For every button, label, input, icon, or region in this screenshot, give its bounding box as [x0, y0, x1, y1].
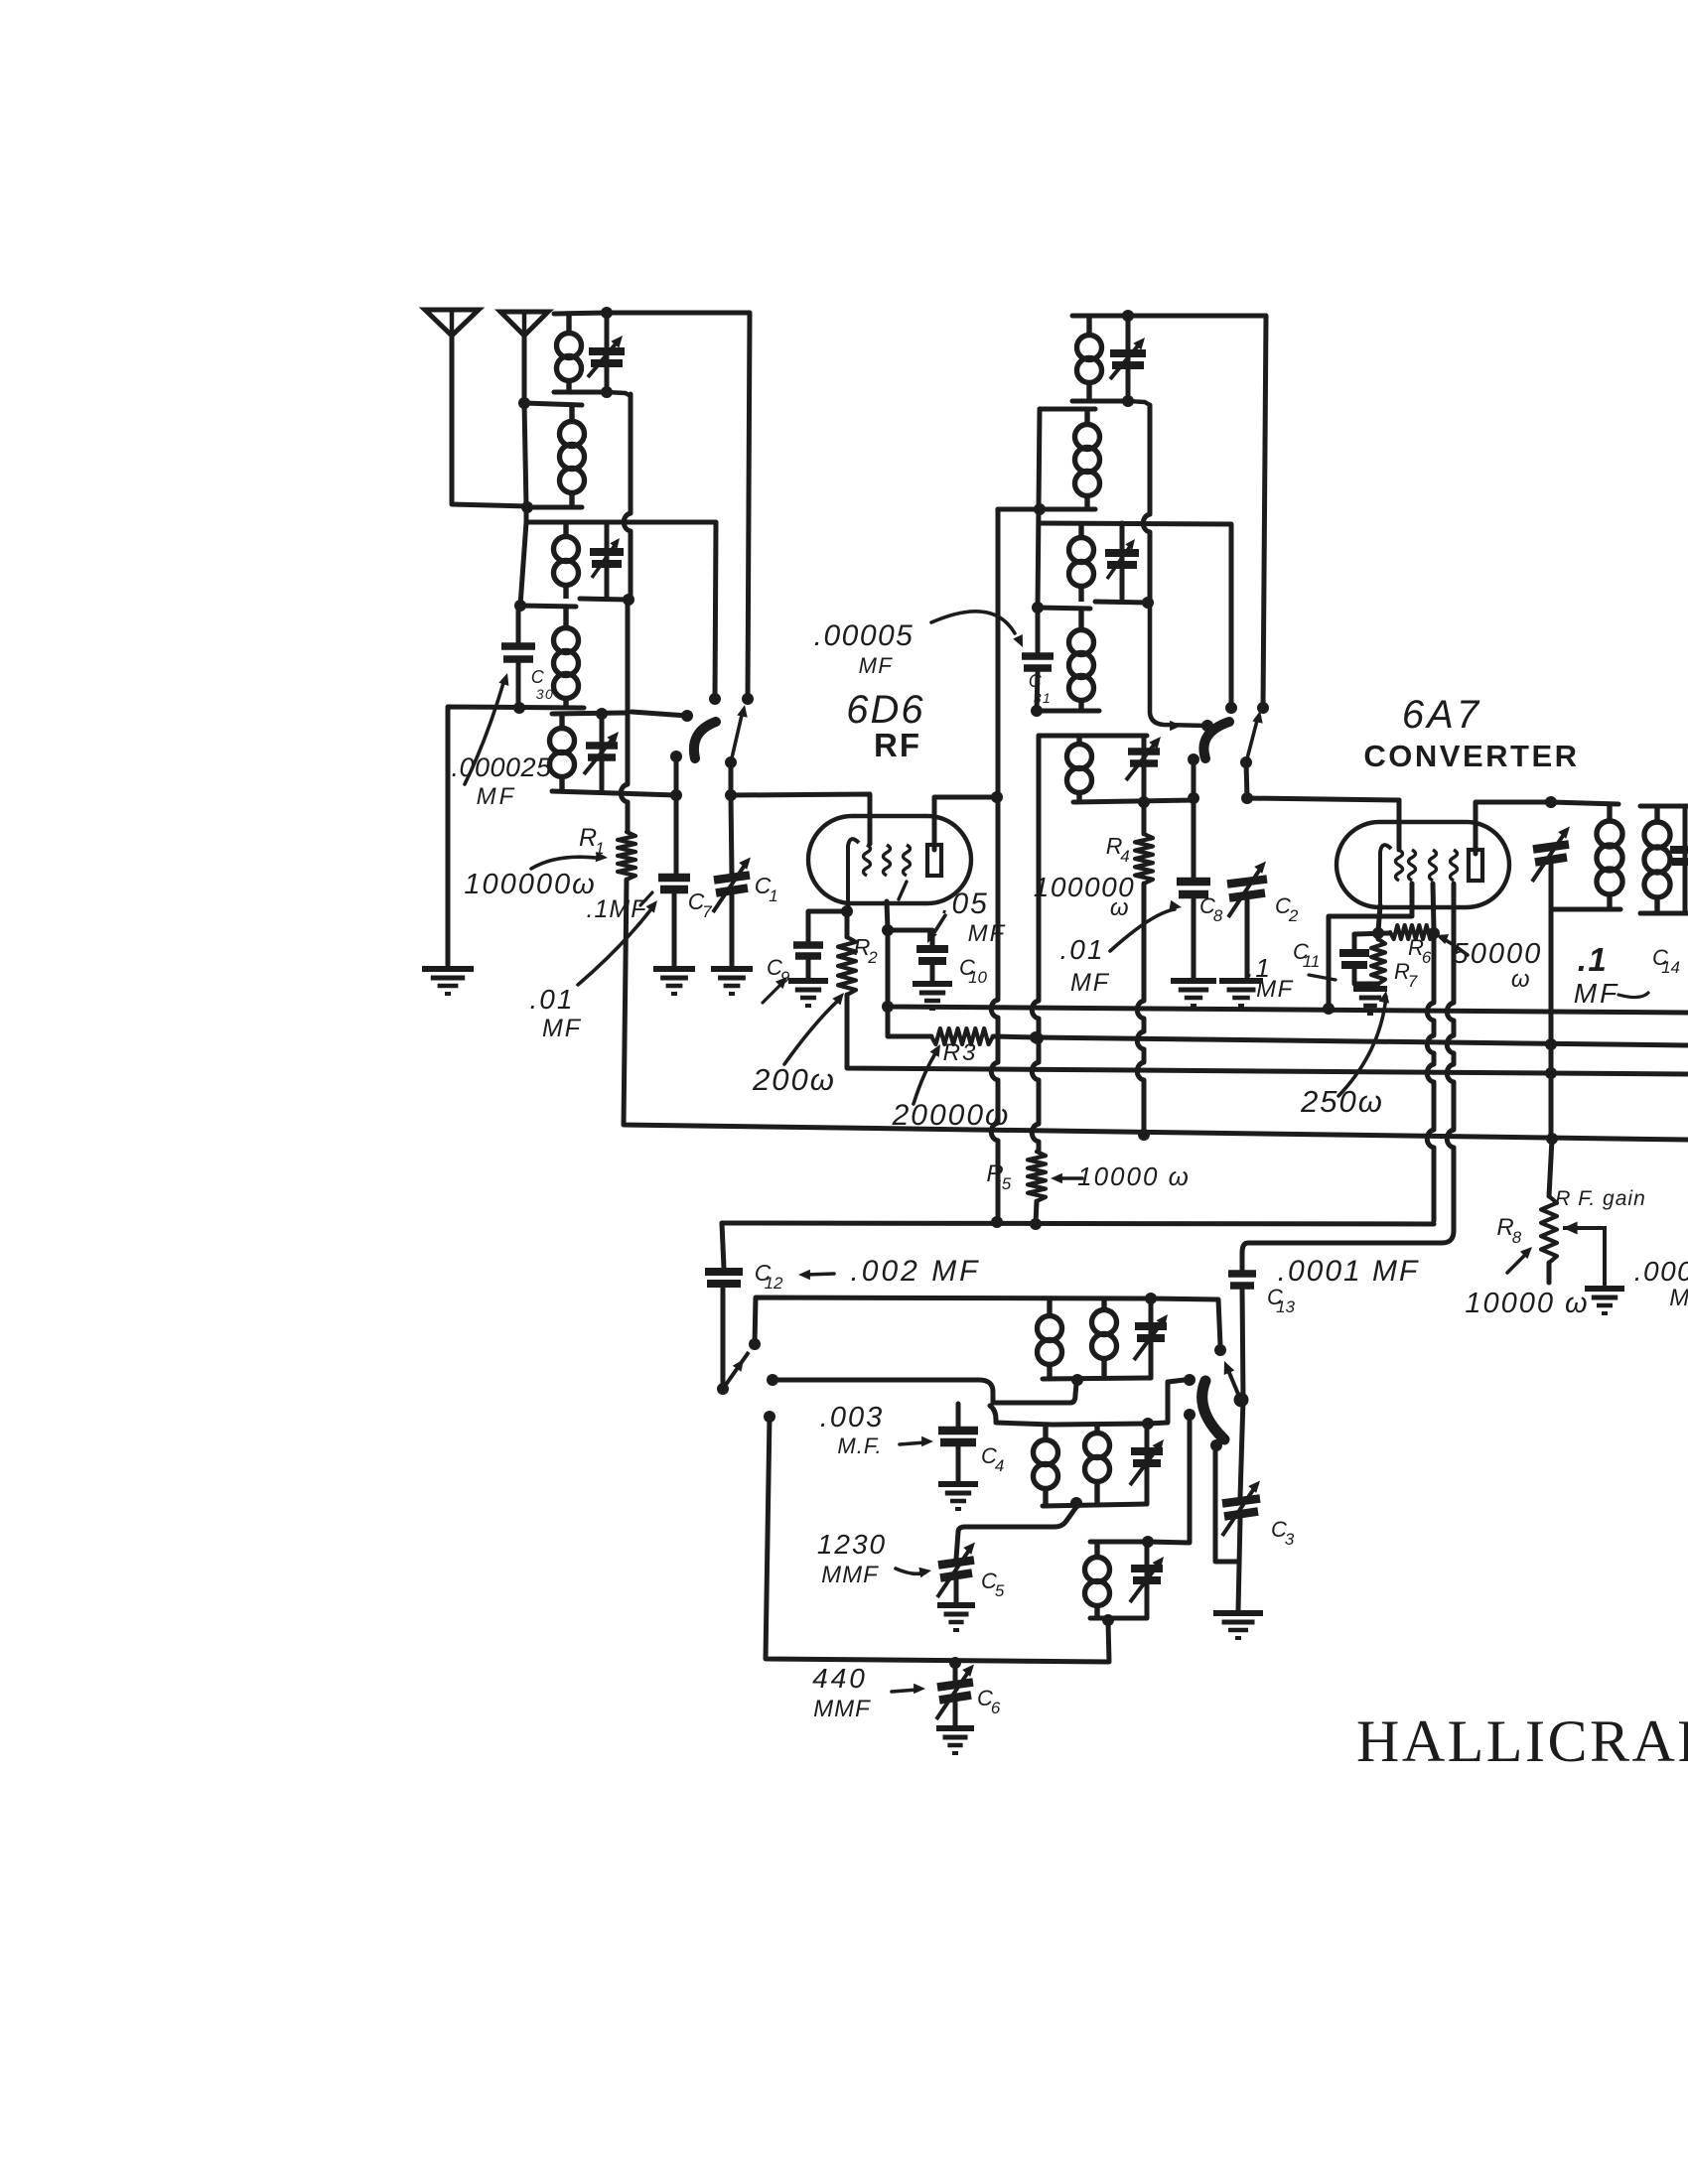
- svg-text:250ω: 250ω: [1300, 1084, 1384, 1119]
- wire R3 to bus2: [993, 1036, 1036, 1037]
- wire L5 bottom edge (grid line): [552, 791, 676, 795]
- svg-text:20000ω: 20000ω: [892, 1099, 1011, 1132]
- leader C11: [1309, 975, 1336, 980]
- inductor L9: [1069, 609, 1094, 711]
- wire osc grid to bus5: [1427, 933, 1434, 1221]
- trimmer arrow L5: [584, 732, 619, 774]
- inductor L8: [1069, 524, 1094, 602]
- label RF gain: [1555, 1187, 1646, 1210]
- svg-text:M: M: [1669, 1285, 1688, 1311]
- wire S1 pole b drop: [729, 762, 734, 795]
- node L2 bottom junction: [521, 501, 533, 513]
- label R3: [943, 1039, 978, 1066]
- wire R7 top stub: [1376, 933, 1381, 939]
- wire L13 trimmer branch: [1145, 1542, 1150, 1618]
- wire C1 ground lead: [730, 895, 735, 966]
- node 6A7 cathode junction: [1372, 927, 1384, 939]
- svg-text:31: 31: [1034, 690, 1053, 706]
- svg-text:MF: MF: [968, 920, 1007, 947]
- trimmer capacitor on L5: [586, 746, 618, 757]
- wire L4 top edge: [520, 606, 576, 607]
- wire C7 branch: [674, 795, 679, 875]
- svg-text:6D6: 6D6: [846, 688, 924, 732]
- svg-text:.1: .1: [1578, 941, 1609, 978]
- inductor L5: [550, 715, 575, 791]
- svg-text:.01: .01: [1060, 934, 1105, 965]
- node R6 right junction: [1428, 927, 1440, 939]
- svg-text:100000ω: 100000ω: [464, 869, 596, 900]
- wire IF secondary trimmer branch: [1683, 806, 1688, 913]
- variable capacitor C1: [713, 858, 751, 913]
- wire C5 feed: [956, 1507, 1076, 1559]
- wire C6 ground lead: [953, 1703, 958, 1725]
- inductor L7: [1075, 410, 1100, 507]
- svg-text:MF: MF: [1256, 976, 1294, 1003]
- leader .003 arrow: [900, 1436, 933, 1447]
- node S2 contact b: [1257, 702, 1269, 714]
- leader R1 arrow: [531, 852, 608, 869]
- trimmer arrow L12: [1130, 1439, 1164, 1485]
- label MF C11: [1256, 976, 1294, 1003]
- node R4-bus4: [1138, 1129, 1150, 1141]
- label 200w: [752, 1062, 836, 1097]
- node B+ bus3: [1545, 1067, 1557, 1079]
- wire S2 pole a drop: [1192, 759, 1196, 798]
- svg-text:440: 440: [812, 1663, 868, 1694]
- trimmer arrow L10: [1126, 737, 1161, 780]
- svg-text:.002 MF: .002 MF: [850, 1255, 980, 1288]
- svg-text:RF: RF: [874, 727, 921, 763]
- wire to C3: [1240, 1399, 1243, 1497]
- svg-text:MF: MF: [542, 1015, 582, 1042]
- leader slash C1: [640, 892, 652, 905]
- variable capacitor C15 (IF trim): [1532, 827, 1570, 883]
- svg-text:ω: ω: [1110, 894, 1130, 921]
- label 440: [812, 1663, 868, 1694]
- wire R4 to bus4: [1137, 884, 1144, 1135]
- svg-text:30: 30: [536, 686, 555, 702]
- ground C9: [788, 981, 828, 1006]
- trimmer arrow L1: [588, 336, 623, 377]
- svg-text:MMF: MMF: [821, 1562, 879, 1588]
- svg-text:MF: MF: [1070, 969, 1110, 997]
- wire ANT1 lead: [452, 336, 529, 506]
- svg-text:.000: .000: [1634, 1256, 1688, 1287]
- ground C8: [1171, 981, 1216, 1006]
- node plate-B junction: [991, 791, 1003, 803]
- svg-text:.01: .01: [530, 984, 575, 1015]
- wire L5 top edge to S1 pole contact: [632, 712, 687, 716]
- label R7: [1394, 959, 1418, 991]
- node S2 pole a: [1188, 753, 1199, 765]
- label 100000w B: [1034, 872, 1135, 902]
- node bus1 corner: [882, 1001, 894, 1013]
- label .01 B: [1060, 934, 1105, 965]
- wire L8 trimmer branch: [1120, 523, 1125, 602]
- node ANT2-L2 junction: [518, 397, 530, 409]
- inductor L3: [554, 523, 579, 599]
- capacitor C4: [938, 1431, 978, 1442]
- node grid line B a: [1188, 792, 1199, 804]
- leader R8 arrow: [1507, 1247, 1532, 1273]
- title HALLICRAFTERS: [1356, 1708, 1688, 1774]
- inductor L1: [557, 314, 582, 392]
- wire L8 top edge to switch S2 left contact: [1039, 523, 1231, 708]
- leader .000025 to C30: [465, 673, 508, 784]
- capacitor C30: [501, 646, 535, 659]
- label .000025: [451, 752, 552, 782]
- capacitor C11: [1339, 953, 1369, 965]
- node S3 contact top: [749, 1338, 761, 1350]
- inductor L13: [1085, 1543, 1110, 1618]
- svg-text:3: 3: [1285, 1530, 1295, 1549]
- wire L7 bottom edge: [1040, 507, 1095, 512]
- leader .01 to C7: [578, 900, 657, 985]
- node L6 bottom: [1122, 395, 1134, 407]
- node L5 trimmer top: [596, 708, 608, 720]
- trimmer capacitor on L8: [1105, 553, 1139, 565]
- trimmer capacitor IF secondary: [1670, 850, 1688, 862]
- wire grid line to 6A7: [1247, 798, 1399, 849]
- wire IF secondary top edge: [1640, 804, 1688, 809]
- wire 6D6 plate lead: [934, 797, 997, 850]
- wire drop to S2 arrow contact: [1150, 603, 1207, 731]
- wire L10 top edge: [1039, 734, 1147, 739]
- trimmer capacitor on L3: [590, 552, 624, 564]
- wire B-bank left side: [1038, 409, 1040, 651]
- label .05: [941, 887, 989, 920]
- node B+ bus2: [1545, 1038, 1557, 1050]
- node S4 contact 3: [1184, 1409, 1196, 1421]
- wire screen to C10: [888, 930, 932, 946]
- svg-text:8: 8: [1213, 906, 1223, 925]
- wire bus5 left corner to C12: [722, 1223, 724, 1268]
- label .1MF: [587, 895, 648, 923]
- node L11 trimmer top: [1145, 1293, 1157, 1304]
- capacitor C7: [658, 878, 690, 889]
- wire grid line to 6D6: [731, 794, 870, 844]
- wire pair3 top edge: [1090, 1540, 1148, 1545]
- inductor L11b: [1092, 1299, 1117, 1378]
- label C4: [981, 1443, 1004, 1475]
- svg-text:4: 4: [1120, 847, 1129, 866]
- wire cathode to C9: [808, 911, 847, 941]
- wire L1 trimmer branch: [605, 313, 610, 392]
- switch S2 arm: [1203, 722, 1229, 758]
- node S4 contact top: [1214, 1344, 1226, 1356]
- svg-text:2: 2: [867, 948, 878, 967]
- label 6A7: [1402, 693, 1481, 737]
- wire S1 pole a drop: [674, 756, 679, 795]
- wire S2 pole b drop: [1246, 762, 1247, 798]
- node 6D6 screen junction: [882, 924, 894, 936]
- leader 1230 arrow: [896, 1568, 931, 1578]
- wire L1 top edge: [554, 313, 607, 314]
- svg-text:200ω: 200ω: [752, 1062, 836, 1097]
- wire 6D6 screen lead: [887, 901, 888, 930]
- antenna ANT2: [500, 312, 548, 336]
- label MF A: [542, 1015, 582, 1042]
- node S2 contact a: [1225, 702, 1237, 714]
- wire L6 bottom drop: [1143, 405, 1150, 600]
- variable capacitor C6: [936, 1665, 974, 1720]
- wire R4 top: [1142, 802, 1147, 834]
- label C3: [1271, 1517, 1295, 1549]
- node B+ bus4 R8 tap: [1546, 1133, 1558, 1145]
- wire pair2 top edge: [1053, 1424, 1148, 1425]
- label .01 MF A: [530, 984, 575, 1015]
- wire L1 bottom corner: [607, 392, 631, 396]
- node pair3 bottom junction: [1102, 1614, 1114, 1626]
- svg-text:MMF: MMF: [813, 1696, 871, 1722]
- vacuum tube 6D6 V1: [808, 816, 971, 909]
- label .1 C14: [1578, 941, 1609, 978]
- svg-text:10: 10: [968, 968, 987, 987]
- antenna ANT1: [425, 310, 479, 336]
- trimmer capacitor on L10: [1128, 751, 1160, 763]
- wire L2 bottom edge: [531, 505, 582, 510]
- svg-text:14: 14: [1661, 958, 1680, 977]
- label M.F.: [837, 1433, 882, 1458]
- resistor R8: [1541, 1196, 1557, 1263]
- node C6 tap: [949, 1657, 961, 1669]
- node pair2 top junction: [1142, 1418, 1154, 1430]
- wire L6 top edge to switch S2 right contact: [1072, 316, 1266, 708]
- svg-text:1230: 1230: [817, 1529, 887, 1560]
- label w 50000: [1511, 966, 1531, 993]
- variable capacitor C3: [1222, 1481, 1260, 1537]
- svg-text:MF: MF: [1574, 978, 1619, 1009]
- switch S1 arm: [694, 722, 716, 758]
- potentiometer wiper R8: [1563, 1222, 1605, 1287]
- label 30: [536, 686, 555, 702]
- svg-text:R3: R3: [943, 1039, 978, 1066]
- node grid junction B: [1142, 597, 1154, 609]
- trimmer capacitor on L13: [1131, 1569, 1163, 1580]
- wire L3 trimmer branch: [605, 522, 610, 599]
- svg-text:7: 7: [1408, 972, 1418, 991]
- wire C12 bottom lead: [721, 1287, 726, 1389]
- trimmer arrow L3: [592, 538, 620, 578]
- label MF of .00005: [859, 653, 894, 678]
- wire 6D6 cathode lead: [847, 905, 848, 911]
- svg-text:.003: .003: [820, 1402, 884, 1433]
- wire 6A7 grid2 lead: [1329, 884, 1412, 1009]
- ground C3: [1213, 1613, 1263, 1638]
- leader 20000 to R3: [914, 1044, 940, 1104]
- label R1: [579, 824, 605, 858]
- wire L12 trimmer branch: [1145, 1424, 1150, 1504]
- node S2 contact c: [1201, 720, 1213, 732]
- capacitor C10: [916, 949, 948, 961]
- ground C2: [1219, 981, 1263, 1006]
- trimmer capacitor on L11: [1135, 1326, 1167, 1338]
- wire C30 bottom lead: [516, 663, 521, 707]
- label .1 C11: [1247, 953, 1272, 983]
- wire L10 trimmer branch: [1142, 736, 1147, 802]
- node bus2 junction: [1032, 1032, 1044, 1044]
- wire C8 branch: [1192, 800, 1196, 879]
- ground A1: [422, 969, 474, 994]
- node plate riser bus5: [991, 1216, 1003, 1228]
- wire R2 top: [845, 911, 850, 937]
- label C6: [977, 1686, 1001, 1717]
- label MF C14: [1574, 978, 1619, 1009]
- wire L7 top edge: [1040, 407, 1095, 412]
- inductor L12b: [1085, 1426, 1110, 1504]
- label R4: [1106, 833, 1130, 866]
- wire C1 branch: [731, 795, 732, 875]
- wire 6D6 plate to L7 bottom: [998, 507, 1040, 512]
- wire C9 to ground: [806, 960, 811, 979]
- wire R8 top: [1549, 1139, 1552, 1196]
- wire L4 bottom edge to ground leg: [448, 707, 584, 965]
- label 6D6: [846, 688, 924, 732]
- wire L5 trimmer branch: [600, 714, 605, 791]
- label 31: [1034, 690, 1053, 706]
- wire S3 mid contact to osc bank: [773, 1380, 1076, 1403]
- node grid junction A: [623, 594, 634, 606]
- node C30 bottom: [513, 702, 525, 714]
- resistor R2: [838, 937, 856, 995]
- wire L9 top edge: [1038, 608, 1090, 609]
- label C11: [1293, 939, 1320, 971]
- label C14: [1652, 945, 1680, 977]
- label w B: [1110, 894, 1130, 921]
- svg-text:C: C: [531, 667, 546, 687]
- label 1230: [817, 1529, 887, 1560]
- label C7: [688, 888, 713, 921]
- label 50000: [1453, 938, 1543, 970]
- variable capacitor C2: [1227, 862, 1267, 918]
- node R3-bus2: [1030, 1031, 1042, 1043]
- ground C5: [937, 1605, 975, 1630]
- label R5: [986, 1160, 1011, 1193]
- label C31: [1029, 671, 1044, 691]
- wire L3 top edge to switch S1 left contact: [526, 522, 716, 699]
- svg-text:8: 8: [1512, 1228, 1522, 1247]
- wire pair3 to S4 contact: [1148, 1415, 1190, 1543]
- node R4 tap: [1138, 796, 1150, 808]
- svg-text:6: 6: [991, 1699, 1001, 1717]
- wire C2 ground lead: [1245, 898, 1250, 978]
- wire L10 bottom edge: [1073, 800, 1194, 802]
- wire cathode rail: [1354, 933, 1390, 934]
- leader C12 arrow: [798, 1270, 834, 1281]
- svg-text:ω: ω: [1511, 966, 1531, 993]
- label .0001 MF: [1278, 1255, 1420, 1288]
- inductor IF secondary T1b: [1644, 807, 1670, 913]
- wire plate B+ riser: [991, 509, 998, 1222]
- switch S4 lever: [1224, 1361, 1240, 1399]
- inductor L6: [1077, 317, 1102, 401]
- svg-text:.00005: .00005: [814, 619, 914, 652]
- svg-text:5: 5: [995, 1581, 1005, 1600]
- wire B+ riser right: [1549, 909, 1554, 1135]
- wire C10 to ground: [930, 964, 935, 982]
- bus line 5: [722, 1223, 1434, 1224]
- ground C7: [653, 969, 695, 994]
- inductor IF primary T1a: [1597, 805, 1622, 909]
- wire C7 ground lead: [672, 892, 677, 966]
- node L1 bottom: [601, 386, 613, 398]
- label 100000w: [464, 869, 596, 900]
- leader .05 to C10: [927, 915, 945, 943]
- wire R1 to bus4: [624, 880, 1688, 1140]
- trimmer arrow L13: [1130, 1557, 1164, 1602]
- node S4 contact 2: [1184, 1374, 1196, 1386]
- label R6: [1408, 935, 1432, 967]
- switch S4 arm: [1202, 1381, 1224, 1439]
- wire L2 top edge: [524, 403, 582, 405]
- node grid line a: [670, 789, 682, 801]
- leader .01B to C8: [1110, 900, 1182, 951]
- wire 6A7 cathode lead: [1378, 905, 1380, 931]
- wire S3 top contact to L11 top: [755, 1297, 1151, 1344]
- trimmer arrow L11: [1134, 1314, 1168, 1360]
- capacitor C9: [793, 945, 823, 956]
- wire pair2 top to S4 contact: [1148, 1380, 1185, 1424]
- svg-text:.05: .05: [941, 887, 989, 920]
- node C31 bottom: [1031, 705, 1043, 717]
- wire top feed to switch S1 right contact: [607, 313, 750, 699]
- wire C8 ground lead: [1192, 897, 1196, 978]
- wire osc anode drop: [1447, 884, 1454, 1231]
- capacitor C31: [1022, 656, 1054, 668]
- node grid line b: [725, 789, 737, 801]
- node pair1 bottom junction: [1071, 1374, 1083, 1386]
- wire L11 top to S4 contact: [1151, 1298, 1220, 1345]
- wire IF secondary bottom edge: [1640, 911, 1688, 916]
- node L7 bottom junction: [1034, 503, 1046, 515]
- node S1 contact b: [742, 693, 754, 705]
- svg-text:11: 11: [1303, 952, 1321, 971]
- wire L8 bottom edge: [1095, 602, 1148, 603]
- wire IF primary top edge: [1551, 802, 1618, 804]
- wire ANT2 lead / coil L2-L4 left side: [520, 336, 526, 606]
- svg-text:M.F.: M.F.: [837, 1433, 882, 1458]
- label R8: [1496, 1214, 1521, 1247]
- node L6 top: [1122, 310, 1134, 322]
- wire 6A7 signal grid lead: [1397, 800, 1402, 850]
- node S1 pole b: [725, 756, 737, 768]
- wire L6 bottom corner: [1128, 401, 1150, 405]
- wire L6 bottom edge: [1072, 399, 1128, 404]
- label MF B: [1070, 969, 1110, 997]
- wire C4 bottom lead: [956, 1445, 961, 1481]
- switch S2 lever: [1246, 711, 1263, 762]
- wire 6A7 plate lead: [1476, 802, 1551, 854]
- svg-text:10000 ω: 10000 ω: [1465, 1288, 1589, 1319]
- wire IF trim bottom: [1549, 864, 1554, 909]
- node L8-C31 junction: [1032, 602, 1044, 614]
- svg-text:13: 13: [1276, 1297, 1295, 1316]
- label RF: [874, 727, 921, 763]
- node S1 contact c: [681, 710, 693, 722]
- label C8: [1199, 893, 1223, 925]
- svg-text:4: 4: [995, 1456, 1004, 1475]
- leader C14: [1618, 993, 1648, 998]
- ground C10: [913, 984, 952, 1009]
- svg-text:7: 7: [702, 902, 712, 921]
- wire L1 bottom to grid node: [624, 394, 631, 598]
- wire L1 bottom edge: [554, 390, 607, 395]
- label MF05: [968, 920, 1007, 947]
- wire osc pair2 top edge: [990, 1406, 1053, 1425]
- wire L11 trimmer branch: [1149, 1298, 1154, 1378]
- wire C31 bottom lead: [1037, 672, 1038, 711]
- resistor R1: [618, 832, 635, 880]
